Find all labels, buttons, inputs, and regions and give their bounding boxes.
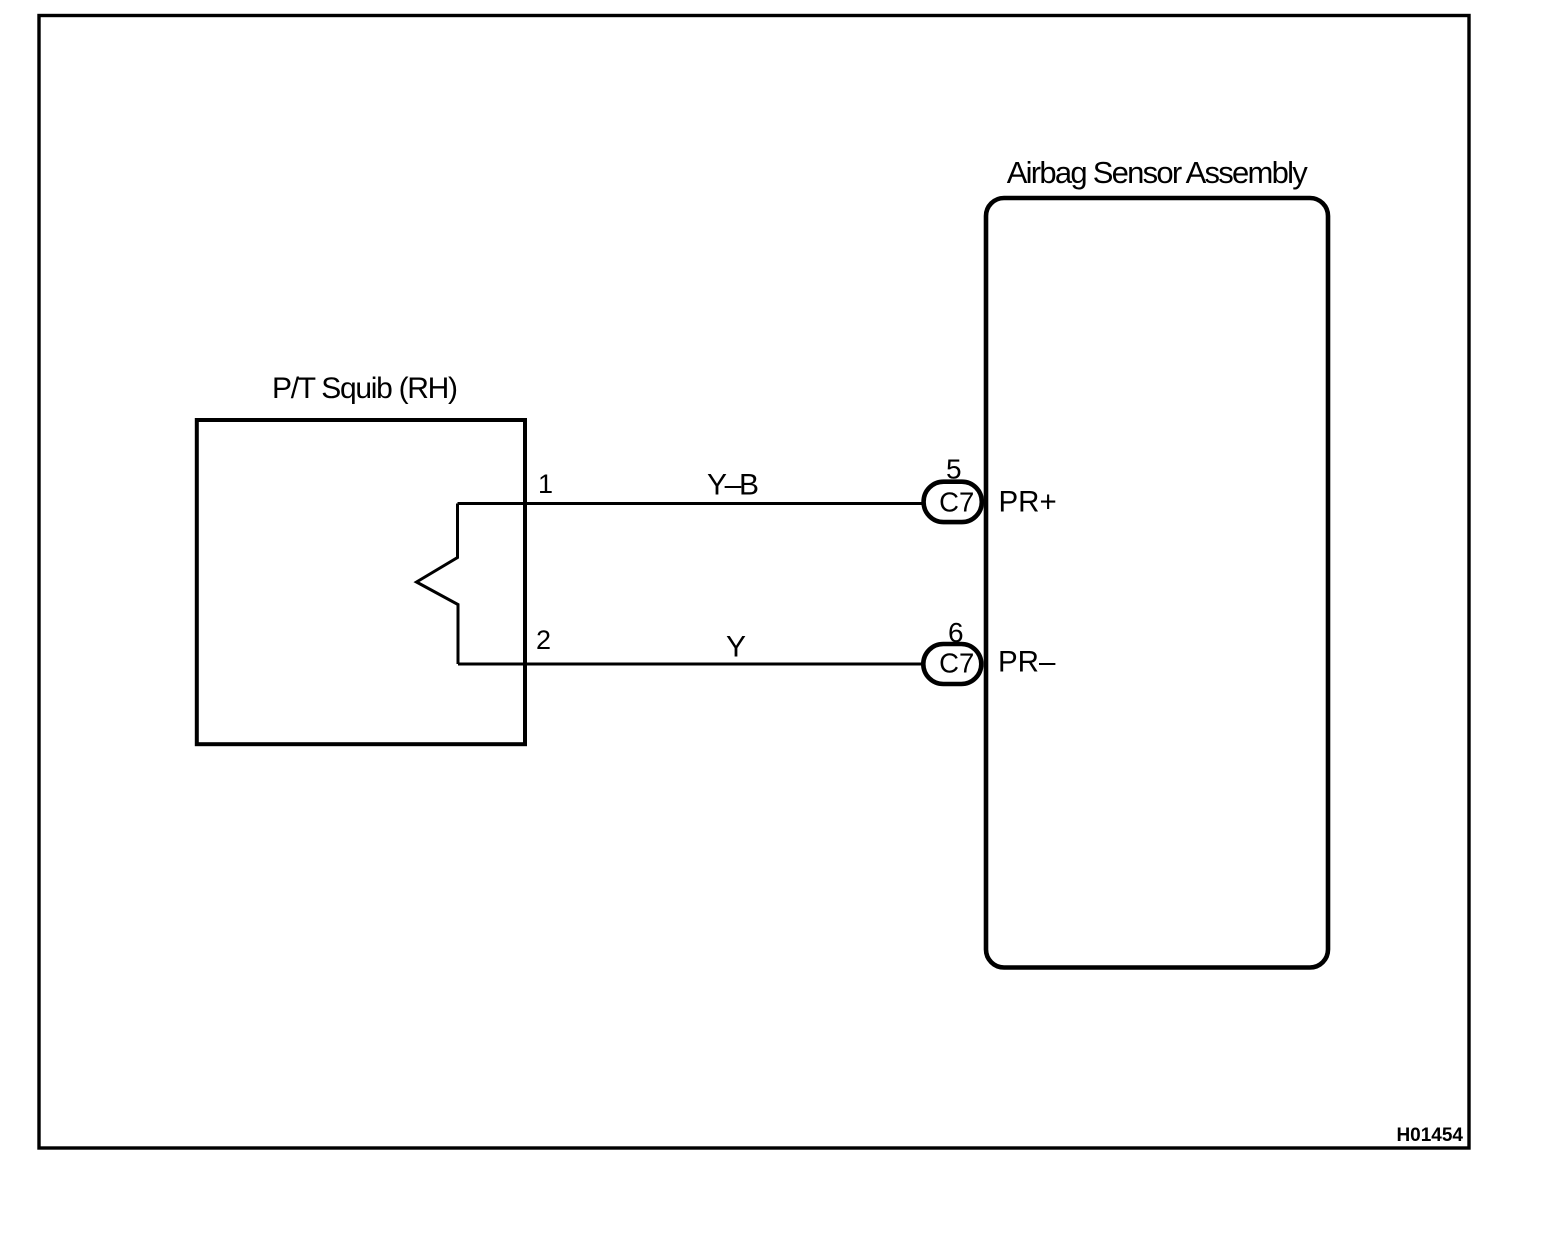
connector C7 oval pin 5 [924, 482, 982, 522]
wire 2 Y [458, 663, 923, 666]
svg-text:2: 2 [536, 625, 551, 655]
svg-text:Y: Y [726, 631, 746, 664]
svg-text:Y–B: Y–B [707, 469, 759, 502]
connector C7 oval pin 6 [923, 644, 981, 684]
squib initiator chevron [417, 504, 459, 665]
svg-text:PR+: PR+ [999, 486, 1057, 519]
svg-text:H01454: H01454 [1396, 1125, 1463, 1146]
component Airbag Sensor Assembly box [986, 198, 1328, 968]
wire 1 Y-B [458, 502, 924, 505]
svg-text:C7: C7 [939, 487, 974, 518]
svg-text:PR–: PR– [998, 646, 1056, 679]
component P/T Squib (RH) box [197, 420, 525, 744]
svg-text:C7: C7 [939, 648, 974, 679]
svg-text:1: 1 [538, 469, 553, 499]
svg-text:P/T Squib (RH): P/T Squib (RH) [272, 372, 458, 405]
svg-text:Airbag Sensor Assembly: Airbag Sensor Assembly [1007, 155, 1308, 190]
